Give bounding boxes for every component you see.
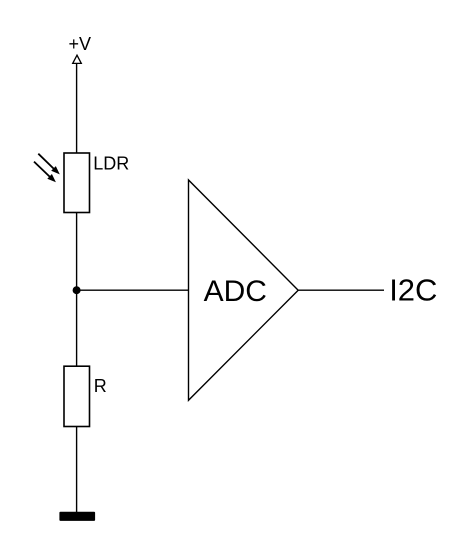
- svg-text:LDR: LDR: [93, 154, 129, 174]
- wire node to R: [76, 290, 78, 366]
- light arrow 2: [34, 162, 56, 183]
- ground: [59, 512, 95, 521]
- svg-text:ADC: ADC: [204, 275, 267, 308]
- node junction dot: [73, 286, 81, 294]
- wire LDR to node: [76, 213, 78, 291]
- svg-text:+V: +V: [69, 34, 92, 54]
- resistor LDR body: [64, 153, 90, 213]
- resistor R body: [64, 366, 90, 426]
- wire R to ground: [76, 427, 78, 513]
- power symbol +V triangle: [73, 55, 82, 63]
- light arrow 1: [38, 154, 60, 175]
- svg-text:R: R: [94, 376, 107, 396]
- svg-text:I2C: I2C: [389, 273, 437, 308]
- wire +V to LDR: [76, 63, 78, 153]
- op-amp ADC triangle: [189, 180, 299, 400]
- wire node to ADC input: [77, 289, 189, 291]
- wire ADC output: [298, 289, 384, 291]
